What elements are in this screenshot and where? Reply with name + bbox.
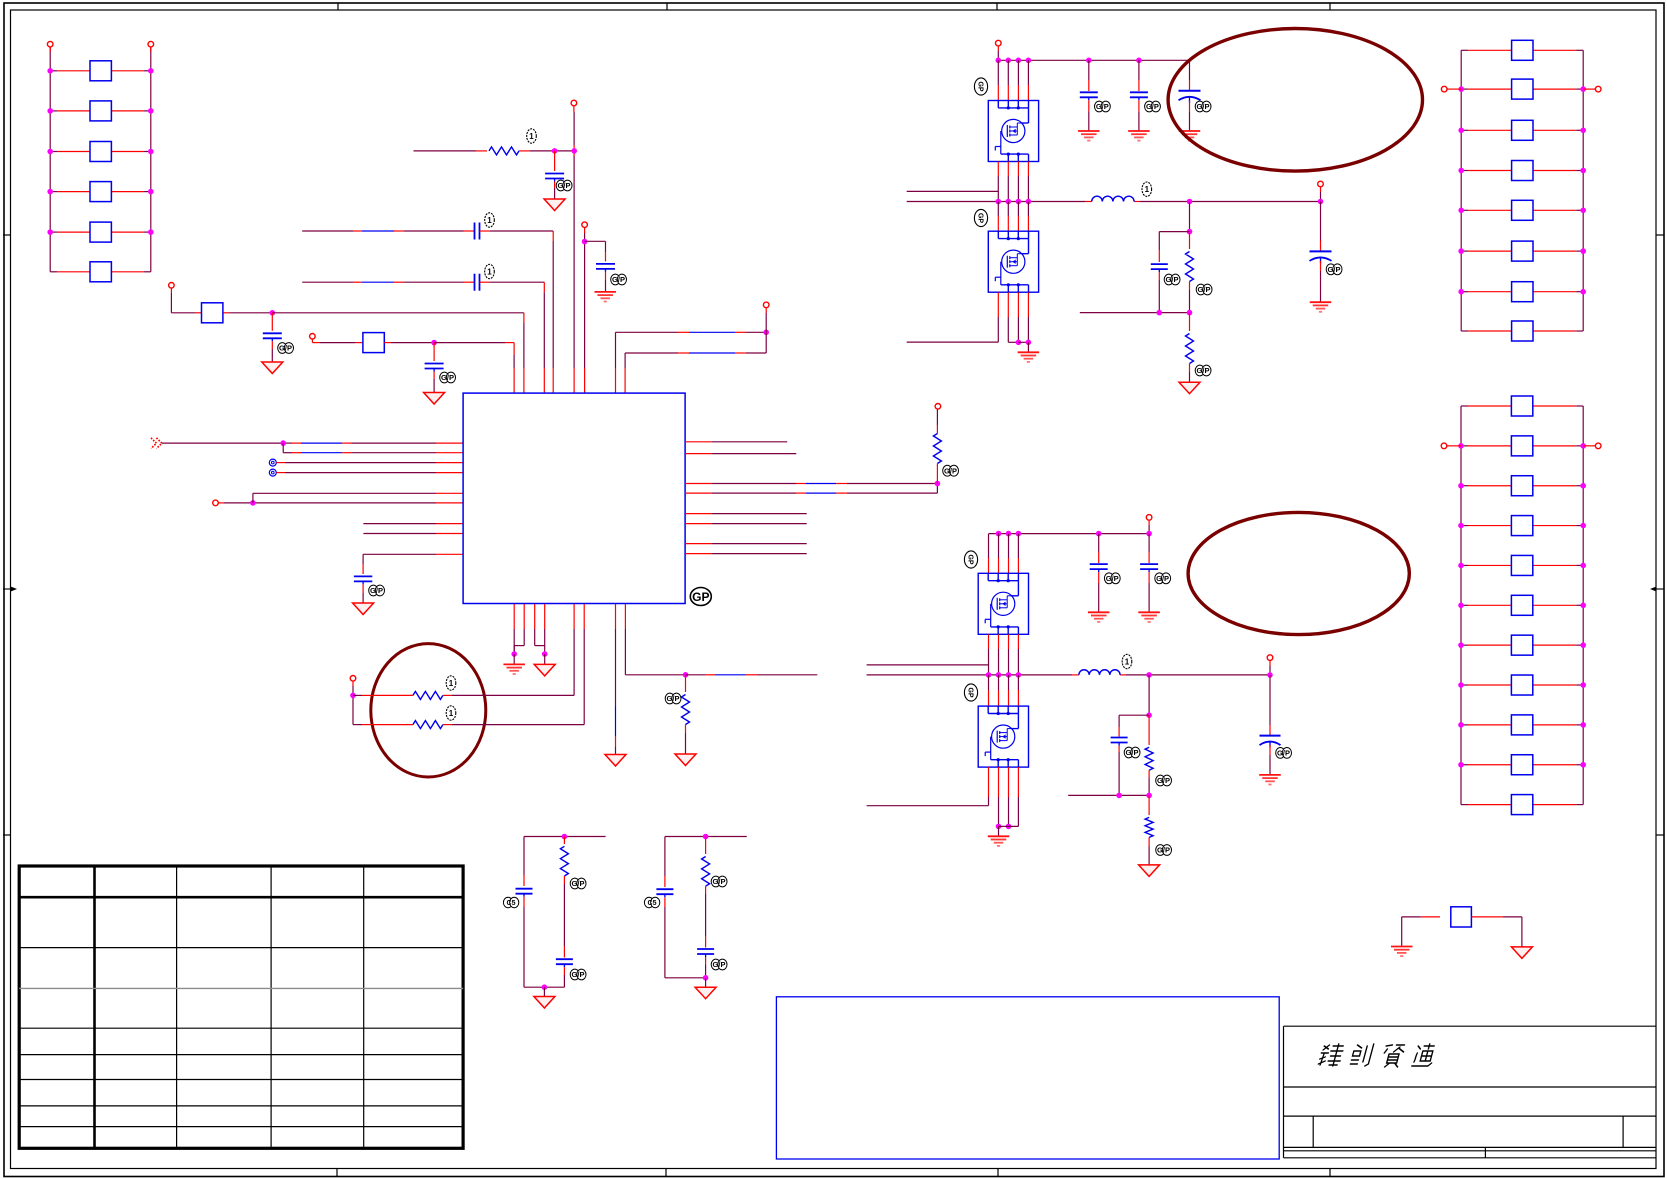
label C5 [503,897,518,907]
svg-text:1: 1 [1125,658,1130,667]
svg-text:G/P: G/P [370,586,383,595]
label G/P [943,465,959,476]
wire IC pin B7 to gnd [615,604,617,755]
wire net2 bottom [665,977,706,979]
ground [424,393,445,405]
wire Q4 source3 [999,767,1019,826]
label G/P [1156,775,1172,786]
label G/P [556,180,572,191]
wire IC pin L3 [276,462,463,464]
wire [544,654,546,664]
inductor L2 [1079,670,1120,675]
ground [353,603,374,615]
resistor ladder row 8 [1458,675,1586,695]
wire IC pin B1 [513,604,515,654]
label G/P [1104,573,1120,584]
resistor ladder row 4 [1458,516,1586,536]
capacitor C21 [263,313,282,362]
svg-text:GP: GP [977,213,984,223]
resistor ladder row 1 [1461,40,1583,60]
resistor R62 [1186,313,1194,383]
capacitor C7 polarized [1179,60,1201,131]
resistor ladder row 6 [1458,241,1586,261]
wire [312,342,363,344]
terminal P4 [310,334,316,343]
terminal P5 [571,100,577,112]
resistor ladder row 2 [1458,436,1586,456]
wire [352,686,354,725]
wire [1269,666,1271,675]
wire IC pin R5 [685,513,807,515]
resistor R12 [47,101,153,121]
left border arrow [3,587,17,592]
resistor R71 [1145,715,1153,795]
wire gate jog 1 [907,190,999,192]
highlight ellipse 1 [1168,29,1422,172]
svg-text:G/P: G/P [944,466,957,475]
wire [1471,916,1522,918]
svg-text:G/P: G/P [1157,776,1170,785]
wire IC pin L8 stub [363,533,463,535]
resistor R61 [1186,232,1194,313]
label 1 [1122,654,1132,668]
ground earth [1138,612,1160,622]
wire IC pin B6 [583,604,585,725]
wire [513,654,515,664]
wire divider [1189,202,1191,232]
svg-text:G/P: G/P [279,344,292,353]
wire Q2 source2 [1017,292,1019,342]
wire gate Q2 [907,292,999,342]
label G/P [711,959,727,970]
phase nodes [996,199,1032,205]
label G/P [611,274,627,285]
capacitor C53a [656,889,673,978]
capacitor C52a [516,889,533,988]
svg-text:GP: GP [967,687,974,697]
wire long vertical to IC [573,112,575,393]
ground earth [503,664,525,674]
wire [223,312,272,314]
wire Q4 source2 [1008,767,1010,826]
inductor L1 [1092,196,1134,201]
terminal VIN1 [996,40,1002,51]
resistor ladder row 1 [1461,396,1583,416]
wire [384,342,434,344]
label C5 [644,897,659,907]
chevron input marker [151,438,162,449]
transistor Q2 [988,231,1038,292]
transistor Q4 [978,706,1028,767]
wire IC pin L2 [283,452,463,454]
label 1 [485,213,495,227]
resistor ladder row 7 [1458,282,1586,302]
terminal [1441,86,1461,92]
phase nodes 2 [986,672,1022,678]
terminal VIN2 [1146,515,1152,525]
svg-text:1: 1 [449,679,454,688]
terminal [1583,86,1601,92]
wire net1 top [524,836,606,838]
node [542,651,548,657]
node [1187,229,1193,235]
terminal P2 [148,41,154,52]
svg-text:C5: C5 [648,900,657,907]
ground [534,997,555,1009]
node [763,330,769,336]
capacitor C10 at 1098.7 [1090,534,1108,613]
resistor R42 [682,675,690,754]
connector J1 [269,459,276,466]
wire left ladder left rail [49,47,51,272]
resistor ladder row 2 [1458,79,1586,99]
capacitor C82 [1111,738,1128,796]
svg-text:G/P: G/P [1166,275,1179,284]
label G/P [570,969,586,980]
wire [765,313,767,353]
wire IC pin B5 [573,604,575,695]
wires phase to Q4 [989,675,1019,706]
wire [372,724,584,726]
capacitor C51 [354,576,372,603]
capacitor C22 [425,343,444,393]
ground earth [988,836,1010,846]
terminal P9 [935,404,941,410]
ground [262,362,283,374]
wires Q1 to phase rail [998,162,1028,202]
label G/P [369,585,385,596]
wire IC pin L7 stub [363,523,463,525]
label G/P [1164,274,1180,285]
node [996,824,1002,830]
capacitor C42 [596,264,615,292]
svg-text:GP: GP [977,81,984,91]
wires rail to Q3 [989,534,1019,574]
highlight ellipse 3 [371,644,486,777]
wire cap branch [1159,232,1189,262]
node [1318,199,1324,205]
svg-text:G/P: G/P [1277,749,1290,758]
wire IC pin L4 [276,472,463,474]
resistor R81 [560,837,568,947]
wire IC pin B8 [625,604,685,675]
node [1146,672,1152,678]
wire [353,695,372,724]
ground [1139,865,1160,877]
wire gate jog 2 [867,664,989,666]
wire net2 top [665,836,747,838]
label G/P [1195,101,1211,112]
capacitor C6 at 1138.9 [1130,60,1148,131]
terminal P7 [763,302,769,313]
wire top rail 1 [998,51,1189,60]
label GP [690,588,711,606]
ground earth [1088,612,1110,622]
svg-text:1: 1 [487,268,492,277]
wire to IC pin T1 [434,343,514,393]
svg-text:G/P: G/P [1126,748,1139,757]
resistor R11 [47,61,153,81]
svg-text:GP: GP [967,554,974,564]
node [1146,712,1152,718]
wire to IC pin T2 [272,313,524,393]
capacitor C81 [1151,264,1168,313]
resistor R41 vertical [933,409,941,483]
label 1 [1142,182,1152,196]
wire [1027,342,1029,352]
resistor R16 [50,262,151,282]
resistor R14 [47,182,153,202]
label GP Q4 [964,684,977,701]
label G/P [1196,284,1212,295]
wire ladder rail left [1460,50,1462,331]
transistor Q3 [978,573,1028,634]
ground earth [1128,131,1150,141]
svg-text:G/P: G/P [667,694,680,703]
terminal [1583,443,1601,449]
ground earth [1078,131,1100,141]
svg-text:G/P: G/P [441,373,454,382]
wire fb2 [1068,794,1149,796]
rail nodes [996,58,1142,64]
wire net1 left [523,837,525,887]
svg-text:G/P: G/P [1106,574,1119,583]
ground earth [1179,131,1201,141]
node [1026,340,1032,346]
ground [544,199,565,211]
wire ladder rail right [1582,406,1584,805]
wire IC pin B2 [514,604,524,654]
resistor ladder row 6 [1458,595,1586,615]
label G/P [1195,365,1211,376]
label GP Q1 [974,78,987,95]
wire ladder rail right [1582,50,1584,331]
node [1006,824,1012,830]
wire IC pin B4 [544,604,546,654]
label G/P [1095,101,1111,112]
wire Q2 source3 [1018,292,1028,342]
svg-text:GP: GP [692,590,709,604]
resistor R82 [702,837,710,937]
wire left ladder right rail [150,47,152,272]
highlight ellipse 2 [1188,512,1409,634]
wires Q3 to phase rail [989,634,1019,675]
terminal P8 [213,500,224,506]
resistor R51 [413,691,443,699]
wire resistor net [414,150,488,152]
wire [705,978,707,987]
terminal VOUT1 [1318,181,1324,192]
capacitor C9 polarized [1310,202,1332,303]
resistor ladder row 8 [1461,321,1583,341]
terminal [1441,443,1461,449]
capacitor C6 at 1088.8 [1080,60,1098,131]
wire [543,987,545,996]
company name 緯創資通 [1318,1044,1437,1067]
label 1 [446,676,456,690]
ground earth [1391,947,1413,957]
transistor Q1 [988,101,1038,162]
wire phase stub [686,674,818,676]
node [552,148,577,154]
ground [1511,947,1532,959]
node [935,481,941,487]
svg-text:G/P: G/P [1197,366,1210,375]
wire IC pin B3 [535,604,545,646]
wire gate Q4 [867,767,989,806]
wire branch [585,241,606,261]
resistor ladder row 4 [1458,161,1586,181]
wire fb [1080,312,1190,314]
label G/P [1155,573,1171,584]
ground earth [594,292,616,302]
capacitor C53b [697,936,714,978]
node [683,672,689,678]
node [703,834,709,840]
wire phase rail 2 [867,674,1270,676]
svg-text:G/P: G/P [612,275,625,284]
node [1267,672,1273,678]
resistor R21 [202,303,223,323]
wire [282,443,284,453]
resistor ladder row 3 [1458,120,1586,140]
node [250,500,256,506]
ground [1179,382,1200,394]
wire IC top pin 8 riser [625,353,766,393]
resistor ladder row 5 [1458,200,1586,220]
wire [1401,917,1403,946]
resistor ladder row 5 [1458,555,1586,575]
label 1 [485,264,495,278]
resistor ladder row 9 [1458,715,1586,735]
label GP Q3 [964,551,977,568]
svg-text:G/P: G/P [1146,102,1159,111]
node [1116,793,1152,799]
label G/P [1276,748,1292,759]
wire IC pin R8 [685,553,807,555]
resistor R91 [1451,907,1472,927]
wire IC pin L5 [253,492,463,494]
wire cap branch 2 [1119,715,1149,736]
ground earth [1259,775,1281,785]
ground earth [1310,302,1332,312]
wires rail to Q1 [998,60,1028,100]
label G/P [440,372,456,383]
wire [372,694,574,696]
node [1016,340,1022,346]
wire Q2 source1 [1008,292,1018,342]
wire [1402,916,1440,918]
node [350,693,356,699]
notes box [776,997,1279,1159]
resistor ladder row 11 [1461,795,1583,815]
terminal P10 [350,676,356,687]
svg-text:G/P: G/P [1197,102,1210,111]
wire IC pin R2 [685,453,796,455]
node [703,975,709,981]
svg-text:G/P: G/P [713,960,726,969]
ground [695,987,716,999]
wire IC pin R6 [685,523,807,525]
svg-text:G/P: G/P [558,181,571,190]
wire IC pin L1 [162,442,463,444]
label G/P [1145,101,1161,112]
node [542,984,548,990]
wire IC pin L6 [224,502,463,504]
wire divider 2 [1148,675,1150,715]
svg-text:1: 1 [1145,185,1150,194]
wire IC pin R1 [685,441,787,443]
node [562,834,568,840]
resistor R15 [47,222,153,242]
svg-text:G/P: G/P [1156,574,1169,583]
capacitor C10 at 1149.1 [1140,534,1158,613]
wire net1 bottom [524,986,564,988]
node [582,239,588,245]
node [1157,310,1193,316]
resistor R52 [413,721,443,729]
svg-text:1: 1 [529,132,534,141]
svg-text:G/P: G/P [572,970,585,979]
wire IC pin R4 [685,484,937,494]
resistor R22 [363,333,384,353]
label G/P [278,343,294,354]
terminal VOUT2 [1267,655,1273,666]
wire [584,233,586,393]
wire net2 left [664,837,666,888]
rail nodes [996,531,1152,537]
revision table [19,866,463,1148]
node [431,340,437,346]
right border arrow [1650,587,1664,592]
wire top rail 2 [989,525,1149,534]
capacitor C3x series at y231.0 [302,223,553,394]
terminal P3 [169,283,175,294]
resistor R31 [489,147,519,155]
title block [1284,1026,1657,1158]
wire [1320,192,1322,202]
resistor R13 [47,142,153,162]
connector J2 [269,469,276,476]
svg-text:G/P: G/P [713,877,726,886]
svg-text:G/P: G/P [1328,265,1341,274]
svg-text:1: 1 [487,216,492,225]
node [1187,199,1193,205]
label G/P [1124,747,1140,758]
wire [998,826,1000,836]
wire IC pin R7 [685,543,807,545]
wire [171,293,201,313]
svg-text:C5: C5 [507,900,516,907]
resistor ladder row 7 [1458,635,1586,655]
ground [605,755,626,767]
capacitor C41 [545,151,564,199]
svg-text:G/P: G/P [572,879,585,888]
capacitor C11 polarized [1260,675,1281,775]
wire [1521,917,1523,947]
resistor ladder row 3 [1458,476,1586,496]
wire [252,493,254,503]
ground earth [1018,352,1040,362]
wire IC pin R3 [685,483,937,485]
label 1 [527,129,537,143]
wire phase rail 1 [907,201,1321,203]
ground [675,754,696,766]
resistor R72 [1145,795,1153,865]
node [511,651,517,657]
svg-text:G/P: G/P [1198,285,1211,294]
svg-text:G/P: G/P [1157,846,1170,855]
